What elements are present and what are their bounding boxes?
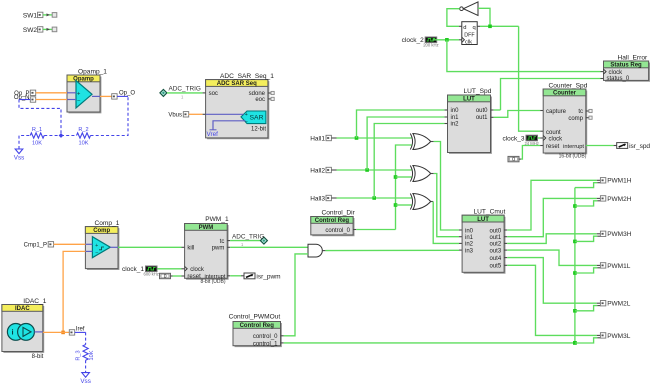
svg-text:control_0: control_0: [253, 334, 278, 340]
wire DFF q to inverter in: [477, 25, 480, 27]
wire Op_N annotation branch: [19, 99, 30, 101]
wire Hall3 to XOR3: [337, 197, 412, 199]
wire out0 riser: [494, 109, 501, 111]
wire out2 to PWM3H: [507, 234, 597, 244]
svg-text:clock_3: clock_3: [502, 135, 524, 142]
ground Vss: [15, 149, 23, 154]
wire R_1 to node: [44, 135, 61, 137]
wire out0 to PWM1H: [507, 180, 597, 230]
wire PWM tc to ADC_TRIG: [227, 240, 230, 242]
svg-text:12-bit: 12-bit: [251, 127, 266, 133]
net terminal ADC_TRIG (soc): [160, 89, 167, 96]
XOR gate U2 (Hall1): [410, 134, 412, 150]
wire Iref to R_3: [75, 331, 86, 333]
junction q node: [488, 25, 492, 29]
svg-text:PWM2H: PWM2H: [607, 196, 632, 203]
svg-text:clock_1: clock_1: [122, 266, 144, 273]
register Control_PWMOut Control Reg: [235, 323, 282, 346]
svg-text:Comp_1: Comp_1: [95, 220, 120, 227]
wire 0 to reset: [519, 158, 521, 160]
wire R_2 to Op_O: [91, 96, 129, 135]
svg-text:Comp: Comp: [93, 228, 110, 234]
XOR gate U4 (Hall3): [410, 194, 412, 210]
wire oe branch PWM2L: [575, 306, 598, 311]
pin PWM3H: [600, 231, 605, 236]
wire clock_1 to PWM clock: [157, 268, 181, 270]
D flip-flop DFF: [462, 22, 477, 45]
svg-text:DFF: DFF: [464, 32, 475, 38]
svg-text:Status Reg: Status Reg: [610, 63, 642, 69]
wire output-enable trunk (control_1): [574, 188, 576, 343]
wire q to Counter count: [519, 26, 541, 131]
svg-text:Vss: Vss: [14, 154, 25, 161]
svg-text:R_3: R_3: [76, 350, 82, 360]
pin stub out0: [504, 229, 507, 231]
svg-text:−: −: [245, 119, 248, 125]
svg-text:in2: in2: [465, 242, 474, 248]
svg-text:ADC_TRIG: ADC_TRIG: [169, 86, 201, 93]
LUT LUT_Cmut: [464, 217, 505, 273]
svg-text:IDAC: IDAC: [15, 306, 30, 312]
svg-text:clock_2: clock_2: [402, 37, 424, 44]
pin stub out5: [504, 264, 507, 266]
wire oe branch PWM3H: [575, 236, 598, 241]
wire Vss to R_1: [19, 136, 30, 150]
junction oe PWM1L: [573, 271, 577, 275]
svg-text:PWM2L: PWM2L: [607, 301, 631, 308]
wire PWM interrupt to isr_pwm: [227, 275, 230, 277]
net label Vref: [210, 129, 217, 131]
svg-text:Hall3: Hall3: [310, 195, 325, 202]
wire oe branch PWM1L: [575, 268, 598, 273]
svg-text:Counter: Counter: [553, 91, 577, 97]
svg-text:Control Reg: Control Reg: [315, 218, 350, 224]
svg-text:eoc: eoc: [255, 97, 265, 103]
svg-text:LUT: LUT: [477, 217, 489, 223]
wire Vbus to SAR+: [206, 113, 244, 115]
wire out3 to PWM1L: [507, 250, 597, 265]
op-amp Opamp_1: [69, 77, 101, 113]
svg-text:pwm: pwm: [212, 246, 225, 252]
wire Op_P to opamp +: [36, 92, 67, 94]
svg-text:control_1: control_1: [253, 341, 278, 347]
register Control_Dir Control Reg: [312, 218, 354, 236]
ISR isr_pwm: [244, 273, 255, 279]
wire Hall2 riser to LUT_Spd in1: [367, 117, 444, 170]
svg-text:ADC_TRIG: ADC_TRIG: [232, 233, 264, 240]
svg-text:PWM1H: PWM1H: [607, 178, 632, 185]
svg-text:10K: 10K: [89, 350, 95, 360]
svg-text:PWM3L: PWM3L: [607, 333, 631, 340]
svg-text:SW2: SW2: [23, 27, 37, 34]
svg-text:interrupt: interrupt: [563, 144, 584, 150]
constant 0 for Counter reset: [508, 156, 519, 161]
svg-text:in0: in0: [465, 228, 474, 234]
svg-text:PWM3H: PWM3H: [607, 231, 632, 238]
wire control_1 output enable bus: [284, 342, 575, 344]
svg-text:reset: reset: [187, 274, 201, 280]
svg-text:SAR: SAR: [250, 115, 264, 122]
wire Op_N to opamp -: [36, 99, 67, 101]
svg-text:in2: in2: [451, 122, 460, 128]
pin stub out2: [504, 242, 507, 244]
wire Op_O to feedback node: [117, 95, 128, 97]
svg-text:clock: clock: [549, 137, 564, 143]
junction Hall2: [365, 168, 369, 172]
wire branch to XOR3 input: [396, 204, 412, 206]
svg-text:out1: out1: [476, 115, 488, 121]
svg-text:capture: capture: [546, 109, 567, 115]
wire PWM pwm to AND gate: [227, 246, 230, 248]
pin stub comp: [586, 117, 589, 119]
svg-text:out1: out1: [490, 235, 502, 241]
wire R_3 to Vss: [85, 360, 87, 372]
inverter feedback: [460, 7, 464, 11]
svg-text:out0: out0: [476, 108, 488, 114]
pin stub sdone: [268, 92, 271, 94]
pin stub out1: [504, 236, 507, 238]
junction oe PWM3L: [573, 341, 577, 345]
svg-text:in1: in1: [451, 115, 460, 121]
svg-text:Control Reg: Control Reg: [240, 323, 275, 329]
svg-text:Control_PWMOut: Control_PWMOut: [229, 314, 281, 321]
svg-text:Iref: Iref: [76, 327, 85, 333]
wire comparator out to PWM kill: [118, 246, 182, 248]
wire Hall2 to XOR2: [337, 169, 412, 171]
wire XOR3 out to LUT_Cmut in2: [431, 201, 434, 203]
wire branch to XOR2 input: [396, 176, 412, 178]
svg-text:Counter_Spd: Counter_Spd: [549, 82, 588, 89]
wire clock_3 to clock: [538, 137, 540, 139]
svg-text:Hall1: Hall1: [310, 135, 325, 142]
comparator Comp_1: [87, 228, 119, 269]
node R1-R2 junction: [59, 133, 64, 138]
svg-text:in0: in0: [451, 108, 460, 114]
pin Op_O: [112, 94, 117, 99]
counter Counter_Spd: [545, 91, 587, 154]
wire clock_2 to Status Reg clock: [447, 40, 601, 72]
svg-text:q: q: [472, 25, 475, 31]
junction clock_2 node: [445, 38, 449, 42]
wire oe branch PWM1H: [575, 183, 598, 188]
wire opamp output to Op_O: [100, 95, 112, 97]
svg-text:in1: in1: [465, 235, 474, 241]
svg-text:SW1: SW1: [23, 12, 37, 19]
svg-text:comp: comp: [568, 116, 583, 122]
junction control_1 trunk base: [573, 341, 577, 345]
svg-text:Opamp_1: Opamp_1: [78, 69, 107, 76]
svg-text:+: +: [95, 243, 98, 249]
ground Vss (R_3): [82, 373, 90, 378]
pin stub eoc: [268, 98, 271, 100]
svg-text:Hall2: Hall2: [310, 167, 325, 174]
junction XOR3 branch: [394, 203, 398, 207]
wire Vbus pin to ADC: [189, 113, 203, 115]
off-chip terminal SW2: [52, 27, 57, 32]
XOR gate U3 (Hall2): [410, 166, 412, 182]
wire SW2 to off-chip terminal: [43, 28, 53, 30]
junction Hall3: [372, 196, 376, 200]
svg-text:10K: 10K: [32, 141, 42, 147]
ISR isr_spd: [617, 143, 628, 149]
svg-text:PWM: PWM: [199, 225, 214, 231]
svg-text:isr_spd: isr_spd: [629, 143, 650, 150]
wire Iref to comparator -: [63, 251, 85, 332]
junction Iref node: [61, 331, 65, 335]
svg-text:soc: soc: [209, 91, 218, 97]
pin stub out3: [504, 249, 507, 251]
pin stub tc: [586, 110, 589, 112]
pin PWM2L: [600, 301, 605, 306]
svg-text:Hall_Error: Hall_Error: [618, 54, 648, 61]
junction XOR2 branch: [394, 175, 398, 179]
ADC U1 ADC_SAR_Seq_1: [207, 81, 269, 139]
wire Hall1 to XOR1/LUT riser: [337, 137, 412, 139]
wire IDAC out: [34, 331, 42, 333]
svg-text:ADC SAR Seq: ADC SAR Seq: [217, 81, 257, 87]
svg-text:Op_N: Op_N: [14, 95, 30, 101]
junction oe PWM2H: [573, 204, 577, 208]
wire Control_PWMOut control_0 to AND: [284, 254, 308, 336]
svg-text:reset: reset: [546, 144, 560, 150]
svg-text:control_0: control_0: [325, 228, 350, 234]
svg-text:−: −: [77, 99, 81, 105]
svg-text:tc: tc: [220, 239, 225, 245]
pin stub out4: [504, 257, 507, 259]
AND gate U5: [308, 244, 322, 257]
IDAC IDAC_1: [3, 306, 43, 352]
wire XOR2 out to LUT_Cmut in1: [431, 173, 434, 175]
svg-text:200 kHz: 200 kHz: [423, 43, 438, 48]
svg-text:+: +: [77, 91, 81, 97]
junction oe PWM2L: [573, 309, 577, 313]
wire node to R_2: [61, 135, 77, 137]
svg-text:+: +: [245, 112, 248, 118]
svg-text:clock: clock: [190, 267, 205, 273]
wire 0 to PWM reset: [171, 275, 173, 277]
wire oe branch PWM2H: [575, 201, 598, 206]
svg-text:0: 0: [164, 274, 167, 280]
svg-text:out2: out2: [490, 242, 502, 248]
wire control_0 to XOR riser: [353, 229, 356, 231]
wire AND out to LUT_Cmut in3: [322, 250, 325, 252]
svg-text:count: count: [546, 130, 561, 136]
svg-text:IDAC_1: IDAC_1: [23, 298, 46, 305]
svg-text:isr_pwm: isr_pwm: [256, 273, 280, 280]
wire XOR1 out to LUT_Cmut in0: [431, 141, 434, 143]
wire Hall3 riser to LUT_Spd in2: [374, 124, 444, 199]
svg-text:PWM1L: PWM1L: [607, 263, 631, 270]
svg-text:LUT_Cmut: LUT_Cmut: [474, 208, 506, 215]
svg-text:ADC_SAR_Seq_1: ADC_SAR_Seq_1: [220, 73, 274, 80]
svg-text:Vbus: Vbus: [168, 113, 182, 119]
svg-text:8-bit (UDB): 8-bit (UDB): [200, 279, 225, 285]
pin PWM1H: [600, 178, 605, 183]
svg-text:16-bit (UDB): 16-bit (UDB): [559, 154, 587, 160]
svg-text:LUT: LUT: [463, 97, 475, 103]
svg-text:Control_Dir: Control_Dir: [322, 210, 356, 217]
svg-text:clk: clk: [465, 39, 472, 45]
wire SW1 to off-chip terminal: [43, 14, 53, 16]
svg-text:out3: out3: [490, 248, 502, 254]
svg-text:0: 0: [512, 157, 515, 163]
svg-text:out5: out5: [490, 264, 502, 270]
svg-text:out4: out4: [490, 256, 502, 262]
svg-text:i: i: [12, 328, 14, 337]
svg-text:8-bit: 8-bit: [32, 354, 44, 360]
net terminal ADC_TRIG (tc): [260, 237, 267, 244]
PWM PWM_1: [186, 225, 228, 279]
pin PWM2H: [600, 196, 605, 201]
SAR block inside ADC: [241, 111, 266, 124]
wire Control_Dir to XOR lower inputs: [396, 145, 412, 230]
svg-text:Cmp1_P: Cmp1_P: [24, 243, 47, 249]
svg-text:kill: kill: [187, 246, 194, 252]
off-chip terminal SW1: [52, 13, 57, 18]
junction Hall1: [355, 136, 359, 140]
svg-text:status_0: status_0: [607, 76, 630, 82]
wire Cmp1_P to comparator +: [54, 243, 86, 245]
svg-text:600 kHz: 600 kHz: [144, 272, 159, 277]
svg-text:Op_O: Op_O: [119, 90, 135, 96]
wire inverter out to DFF d: [447, 9, 460, 27]
svg-text:d: d: [463, 25, 466, 31]
wire out5 to PWM3L: [507, 265, 597, 335]
wire out1 to Counter capture: [494, 111, 541, 118]
register Hall_Error Status Reg: [605, 63, 649, 82]
pin PWM1L: [600, 263, 605, 268]
junction oe PWM3H: [573, 240, 577, 244]
pin PWM3L: [600, 333, 605, 338]
wire oe branch PWM3L: [575, 338, 598, 343]
wire ADC_TRIG to soc: [167, 92, 203, 94]
wire LUT_Spd out0 to status_0: [501, 79, 601, 111]
constant 0 for PWM reset: [160, 273, 171, 278]
wire Hall1 riser to LUT_Spd in0: [357, 110, 445, 138]
svg-text:−: −: [95, 250, 98, 256]
pin stubs LUT_Spd: [444, 109, 447, 111]
svg-text:in3: in3: [465, 248, 474, 254]
svg-text:out0: out0: [490, 228, 502, 234]
svg-text:LUT_Spd: LUT_Spd: [464, 88, 492, 95]
pin Iref: [69, 330, 74, 335]
svg-text:Vref: Vref: [207, 131, 219, 138]
svg-text:Vss: Vss: [80, 378, 91, 385]
wire out4 to PWM2L: [507, 258, 597, 304]
wire clock_2 to DFF clk: [433, 39, 459, 41]
wire SAR- to Vref: [213, 121, 246, 130]
svg-text:tc: tc: [578, 109, 583, 115]
LUT LUT_Spd: [449, 97, 491, 154]
svg-text:PWM_1: PWM_1: [205, 216, 229, 223]
wire interrupt to isr_spd: [586, 145, 614, 147]
svg-text:10K: 10K: [79, 141, 89, 147]
wire out1 to PWM2H: [507, 198, 597, 236]
